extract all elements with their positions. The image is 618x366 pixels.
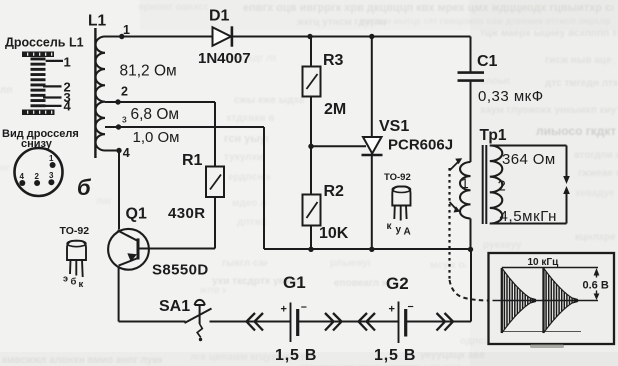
svg-text:0,33 мкФ: 0,33 мкФ [478, 88, 544, 105]
svg-text:3: 3 [49, 171, 54, 180]
svg-text:VS1: VS1 [379, 118, 409, 135]
svg-text:PCR606J: PCR606J [388, 137, 453, 154]
svg-text:TO-92: TO-92 [384, 172, 411, 183]
svg-text:D1: D1 [209, 8, 230, 25]
svg-text:R3: R3 [323, 52, 344, 69]
svg-text:G1: G1 [283, 273, 306, 292]
svg-text:к: к [79, 279, 84, 290]
svg-text:1: 1 [64, 55, 71, 70]
svg-text:+: + [281, 304, 287, 316]
svg-text:81,2 Ом: 81,2 Ом [120, 63, 177, 80]
svg-text:Дроссель L1: Дроссель L1 [5, 36, 84, 50]
svg-text:1,5 В: 1,5 В [275, 347, 317, 364]
svg-text:R2: R2 [324, 183, 345, 200]
svg-text:1: 1 [49, 154, 54, 163]
svg-text:−: − [301, 302, 307, 314]
svg-text:2: 2 [498, 178, 506, 195]
svg-text:Тр1: Тр1 [480, 127, 507, 144]
svg-text:TO-92: TO-92 [60, 225, 90, 237]
svg-text:−: − [408, 301, 414, 313]
svg-text:б: б [77, 175, 92, 200]
svg-text:L1: L1 [88, 13, 106, 30]
svg-text:C1: C1 [477, 53, 498, 70]
svg-text:1N4007: 1N4007 [198, 50, 251, 67]
svg-text:1: 1 [123, 23, 130, 37]
svg-text:R1: R1 [182, 152, 203, 169]
svg-text:0.6 В: 0.6 В [583, 280, 609, 292]
svg-text:1,0 Ом: 1,0 Ом [133, 129, 180, 146]
svg-text:6,8 Ом: 6,8 Ом [131, 106, 180, 123]
svg-text:430R: 430R [168, 205, 205, 222]
svg-text:4,5мкГн: 4,5мкГн [500, 208, 558, 225]
svg-text:4: 4 [64, 99, 72, 114]
svg-text:S8550D: S8550D [152, 262, 209, 279]
svg-text:1: 1 [461, 175, 469, 191]
svg-text:1,5 В: 1,5 В [374, 347, 416, 364]
svg-text:2: 2 [35, 172, 40, 181]
svg-text:364 Ом: 364 Ом [502, 151, 556, 168]
svg-text:2: 2 [121, 84, 128, 98]
svg-text:4: 4 [123, 146, 130, 160]
svg-text:у: у [396, 225, 402, 236]
svg-text:10 кГц: 10 кГц [528, 257, 560, 268]
svg-text:А: А [404, 227, 411, 238]
svg-text:э: э [63, 274, 68, 284]
svg-text:Q1: Q1 [126, 206, 147, 223]
svg-text:3: 3 [122, 115, 127, 125]
svg-text:10K: 10K [319, 225, 349, 242]
svg-text:4: 4 [20, 172, 25, 181]
svg-text:б: б [71, 277, 77, 288]
svg-text:+: + [389, 304, 395, 316]
svg-text:SA1: SA1 [159, 298, 190, 315]
svg-text:G2: G2 [386, 274, 409, 293]
svg-text:к: к [387, 221, 393, 232]
svg-text:2M: 2M [324, 101, 346, 118]
